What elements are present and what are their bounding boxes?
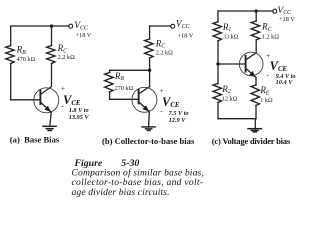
label: VCE (a) bbox=[63, 93, 81, 107]
wire: emitter down to RE (c) bbox=[255, 77, 257, 85]
label: caption line 1 bbox=[72, 168, 204, 179]
node: junction of RC branch on top rail (c) bbox=[255, 9, 258, 12]
resistor RB 270 k ohm (b) bbox=[105, 73, 113, 93]
svg-text:1 kΩ: 1 kΩ bbox=[260, 97, 273, 104]
transistor Q (b): base bar bbox=[138, 90, 140, 104]
svg-text:2.2 kΩ: 2.2 kΩ bbox=[58, 54, 75, 61]
wire: RB top lead (a) bbox=[10, 26, 12, 46]
wire: emitter down to ground (b) bbox=[148, 112, 151, 127]
label: R1 designator (c) bbox=[222, 22, 232, 33]
resistor RC 2.2 k ohm (a) bbox=[47, 46, 55, 64]
svg-text:1.8 V to: 1.8 V to bbox=[69, 107, 89, 114]
transistor Q (a): envelope circle bbox=[34, 88, 59, 113]
wire: base wire into transistor (c) bbox=[218, 63, 245, 65]
svg-text:2.2 kΩ: 2.2 kΩ bbox=[156, 50, 173, 57]
wire: top rail of circuit (a) from RB column to Vcc terminal bbox=[11, 25, 69, 27]
wire: R2 bottom lead (c) bbox=[217, 103, 219, 119]
label: RB designator (b) bbox=[114, 71, 125, 82]
svg-text:1.2 kΩ: 1.2 kΩ bbox=[262, 33, 279, 40]
label: 1.8 V to (a) bbox=[69, 107, 89, 114]
transistor Q (c): collector lead and diagonal bbox=[246, 40, 256, 60]
svg-text:10.4 V: 10.4 V bbox=[276, 79, 294, 86]
wire: R1 top lead (c) bbox=[217, 11, 219, 22]
label: Figure 5-30 bbox=[74, 158, 140, 169]
label: 33 kohm value (c) bbox=[223, 33, 239, 40]
label: 2.2 kohm value (a) bbox=[58, 54, 75, 61]
wire: RB bottom lead and base wire (b) bbox=[110, 92, 138, 99]
ground symbol (a) bbox=[43, 126, 56, 130]
label: (b) Collector-to-base bias bbox=[102, 136, 195, 146]
svg-text:+18 V: +18 V bbox=[279, 16, 295, 23]
wire: RC top lead (c) bbox=[255, 11, 257, 21]
resistor R1 33 k ohm (c) bbox=[213, 22, 221, 41]
svg-text:12 kΩ: 12 kΩ bbox=[222, 95, 238, 102]
svg-text:age divider bias circuits.: age divider bias circuits. bbox=[72, 187, 170, 198]
svg-text:+: + bbox=[159, 86, 163, 95]
label: 12 kohm value (c) bbox=[222, 95, 238, 102]
node: junction of RC branch on top rail (a) bbox=[50, 24, 53, 27]
label: 2.2 kohm value (b) bbox=[156, 50, 173, 57]
svg-text:+18 V: +18 V bbox=[76, 32, 92, 39]
label: minus sign of VCE (b) bbox=[160, 106, 163, 115]
svg-text:33 kΩ: 33 kΩ bbox=[223, 33, 239, 40]
transistor Q (a): collector lead bbox=[41, 64, 52, 95]
wire: R1 bottom lead down to base node (c) bbox=[217, 41, 219, 64]
resistor RE 1 k ohm (c) bbox=[251, 85, 259, 106]
wire: ground stub (c) bbox=[254, 119, 256, 129]
transistor Q (b): collector diagonal bbox=[139, 87, 150, 94]
label: RE designator (c) bbox=[259, 85, 270, 96]
svg-text:+18 V: +18 V bbox=[178, 33, 194, 40]
transistor Q (c): envelope circle bbox=[239, 52, 263, 76]
wire: RB bottom lead down to base level (a) bbox=[10, 64, 12, 100]
label: Vcc (b) bbox=[176, 20, 190, 30]
wire: RB top lead (b) bbox=[109, 70, 111, 72]
wire: collector column through feedback node (b) bbox=[149, 58, 151, 87]
label: plus sign of VCE (c) bbox=[266, 51, 270, 60]
label: RB designator (a) bbox=[16, 45, 27, 56]
label: 7.5 V to (b) bbox=[169, 110, 189, 117]
svg-text:270 kΩ: 270 kΩ bbox=[115, 85, 134, 92]
resistor RC 1.2 k ohm (c) bbox=[251, 21, 259, 40]
label: Vcc (c) bbox=[277, 6, 291, 16]
ground symbol (c) bbox=[248, 129, 262, 132]
svg-text:13.95 V: 13.95 V bbox=[69, 114, 90, 121]
wire: top rail of circuit (b) to Vcc terminal bbox=[150, 25, 171, 27]
wire: feedback wire from collector node to RB top (b) bbox=[110, 69, 150, 71]
resistor RB 470 k ohm (a) bbox=[6, 46, 14, 64]
wire: base wire into transistor (a) bbox=[11, 99, 40, 101]
label: 13.95 V (a) bbox=[69, 114, 90, 121]
label: RC designator (c) bbox=[261, 22, 272, 33]
svg-text:12.9 V: 12.9 V bbox=[169, 117, 187, 124]
label: VCE (c) bbox=[270, 59, 288, 73]
label: +18 V (b) bbox=[178, 33, 194, 40]
node: feedback junction on collector column (b) bbox=[148, 69, 151, 72]
transistor Q (a): emitter with arrow bbox=[41, 103, 51, 113]
label: RC designator (b) bbox=[155, 38, 166, 49]
label: (a) Base Bias bbox=[10, 135, 60, 145]
label: VCE (b) bbox=[162, 95, 180, 109]
label: 1 kohm value (c) bbox=[260, 97, 273, 104]
resistor RC 2.2 k ohm (b) bbox=[145, 39, 153, 58]
terminal: Vcc open-circle terminal (a) bbox=[69, 24, 73, 28]
svg-text:470 kΩ: 470 kΩ bbox=[17, 56, 36, 63]
label: 1.2 kohm value (c) bbox=[262, 33, 279, 40]
wire: top rail of circuit (c) to Vcc terminal bbox=[218, 10, 273, 12]
label: 10.4 V (c) bbox=[276, 79, 294, 86]
transistor Q (c): emitter with arrow bbox=[246, 69, 256, 78]
wire: R2 top lead (c) bbox=[217, 64, 219, 84]
transistor Q (c): base bar bbox=[245, 56, 247, 72]
label: R2 designator (c) bbox=[221, 84, 231, 95]
node: base junction at divider tap (c) bbox=[216, 62, 219, 65]
svg-text:+: + bbox=[61, 84, 65, 93]
resistor R2 12 k ohm (c) bbox=[213, 84, 221, 103]
label: +18 V (c) bbox=[279, 16, 295, 23]
svg-text:(b) Collector-to-base bias: (b) Collector-to-base bias bbox=[102, 136, 195, 146]
label: 12.9 V (b) bbox=[169, 117, 187, 124]
label: minus sign of VCE (a) bbox=[61, 101, 64, 110]
svg-text:(a) Base Bias: (a) Base Bias bbox=[10, 135, 60, 145]
label: 9.4 V to (c) bbox=[276, 73, 296, 80]
wire: RC top lead (a) bbox=[51, 26, 53, 46]
label: RC designator (a) bbox=[57, 43, 68, 54]
svg-text:7.5 V to: 7.5 V to bbox=[169, 110, 189, 117]
label: 270 kohm value (b) bbox=[115, 85, 134, 92]
label: minus sign of VCE (c) bbox=[266, 71, 269, 80]
label: caption line 3 bbox=[72, 187, 170, 198]
label: +18 V (a) bbox=[76, 32, 92, 39]
ground symbol (b) bbox=[142, 127, 155, 131]
wire: RE bottom lead (c) bbox=[255, 106, 257, 119]
transistor Q (a): base bar bbox=[39, 90, 41, 104]
svg-text:(c) Voltage divider bias: (c) Voltage divider bias bbox=[212, 136, 291, 146]
transistor Q (b): envelope circle bbox=[132, 87, 157, 112]
terminal: Vcc open-circle terminal (c) bbox=[273, 9, 277, 13]
wire: RC top lead (b) bbox=[149, 26, 151, 39]
wire: emitter down to ground (a) bbox=[50, 112, 51, 126]
label: plus sign of VCE (a) bbox=[61, 84, 65, 93]
terminal: Vcc open-circle terminal (b) bbox=[171, 24, 175, 28]
transistor Q (b): emitter with arrow bbox=[139, 102, 149, 112]
label: caption line 2 bbox=[72, 177, 204, 188]
label: (c) Voltage divider bias bbox=[212, 136, 291, 146]
label: 470 kohm value (a) bbox=[17, 56, 36, 63]
wire: bottom rail joining R2 and RE (c) bbox=[218, 118, 256, 120]
label: plus sign of VCE (b) bbox=[159, 86, 163, 95]
label: Vcc (a) bbox=[74, 21, 88, 31]
